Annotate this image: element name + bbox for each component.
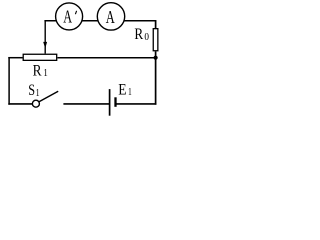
battery E1 negative plate [114, 97, 116, 107]
wire right lower [155, 51, 157, 104]
svg-text:1: 1 [128, 87, 132, 98]
wire R1 right [58, 57, 156, 59]
wire R1 left [8, 57, 22, 59]
svg-text:R: R [33, 63, 42, 80]
svg-text:R: R [134, 26, 143, 43]
wire bottom left [8, 103, 32, 105]
slider arrow [43, 42, 47, 49]
wire right upper [155, 20, 157, 29]
label A' prime mark [75, 11, 76, 14]
svg-text:1: 1 [43, 68, 47, 79]
wire wiper lead (top-left corner down to rheostat) [44, 21, 46, 54]
resistor R0 [153, 29, 158, 51]
svg-text:E: E [118, 82, 126, 99]
svg-text:A: A [63, 7, 72, 27]
node junction [154, 56, 158, 60]
svg-text:S: S [28, 82, 35, 99]
svg-text:1: 1 [36, 88, 40, 99]
wire switch to battery [63, 103, 109, 105]
wire top [44, 20, 156, 22]
svg-text:0: 0 [144, 32, 149, 43]
ammeter A [97, 3, 124, 30]
switch S1 lever [39, 91, 58, 102]
wire left vertical [8, 57, 10, 105]
switch S1 pivot [32, 100, 39, 107]
svg-text:A: A [106, 7, 115, 27]
ammeter A' [56, 3, 83, 30]
battery E1 positive plate [109, 89, 111, 116]
wire battery right [116, 103, 157, 105]
rheostat R1 [23, 54, 57, 60]
